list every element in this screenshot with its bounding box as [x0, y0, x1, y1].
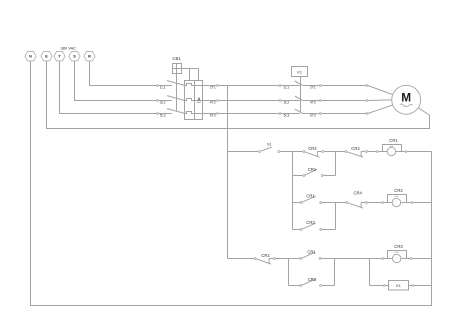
svg-text:T: T: [58, 55, 61, 59]
svg-text:CR2: CR2: [351, 146, 360, 151]
svg-text:S1: S1: [267, 142, 272, 146]
svg-text:CR3: CR3: [394, 244, 403, 249]
svg-text:M: M: [401, 91, 411, 105]
svg-text:S: S: [73, 55, 76, 59]
svg-text:6T3: 6T3: [210, 114, 216, 118]
svg-text:CR2: CR2: [306, 220, 315, 225]
svg-text:4T2: 4T2: [310, 101, 316, 105]
svg-text:2T1: 2T1: [310, 86, 316, 90]
svg-text:CR3: CR3: [308, 277, 317, 282]
svg-text:5L3: 5L3: [284, 114, 290, 118]
svg-text:3L2: 3L2: [160, 101, 166, 105]
svg-text:CR1: CR1: [306, 193, 315, 198]
svg-text:5L3: 5L3: [160, 114, 166, 118]
svg-text:R: R: [88, 55, 91, 59]
svg-text:K1: K1: [297, 70, 302, 74]
svg-text:CR3: CR3: [308, 146, 317, 151]
svg-text:N: N: [29, 55, 32, 59]
svg-text:CR2: CR2: [261, 253, 270, 258]
svg-text:3L2: 3L2: [284, 101, 290, 105]
svg-text:Λ: Λ: [198, 96, 201, 101]
svg-text:CB1: CB1: [172, 56, 181, 61]
svg-text:1L1: 1L1: [284, 86, 290, 90]
svg-text:6T3: 6T3: [310, 114, 316, 118]
svg-text:1L1: 1L1: [160, 86, 166, 90]
svg-text:380 VAC: 380 VAC: [60, 45, 76, 50]
svg-text:K1: K1: [396, 284, 401, 288]
svg-text:CR1: CR1: [308, 167, 317, 172]
svg-text:CR2: CR2: [394, 188, 403, 193]
svg-text:E: E: [45, 55, 48, 59]
svg-text:2T1: 2T1: [210, 86, 216, 90]
svg-text:CR1: CR1: [389, 138, 398, 143]
svg-text:4T2: 4T2: [210, 101, 216, 105]
svg-text:CR1: CR1: [307, 250, 316, 255]
svg-text:CR4: CR4: [354, 190, 363, 195]
